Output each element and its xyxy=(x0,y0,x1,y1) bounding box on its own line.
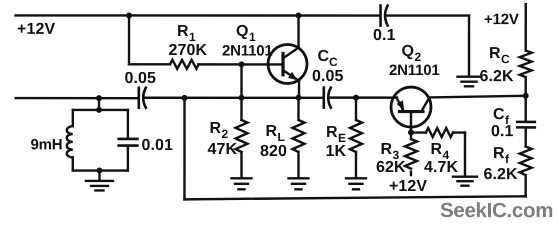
svg-text:+12V: +12V xyxy=(17,21,55,38)
svg-text:47K: 47K xyxy=(207,141,237,158)
svg-text:+12V: +12V xyxy=(389,178,427,195)
svg-text:2N1101: 2N1101 xyxy=(389,62,440,79)
svg-text:+12V: +12V xyxy=(484,11,519,28)
svg-text:62K: 62K xyxy=(376,159,406,176)
svg-text:R: R xyxy=(430,141,442,158)
svg-text:0.1: 0.1 xyxy=(373,27,396,44)
svg-text:Q: Q xyxy=(236,23,249,40)
svg-text:2N1101: 2N1101 xyxy=(222,42,273,59)
svg-text:SeekIC.com: SeekIC.com xyxy=(440,199,553,222)
svg-text:4.7K: 4.7K xyxy=(424,159,459,176)
svg-text:9mH: 9mH xyxy=(30,136,62,153)
svg-text:0.1: 0.1 xyxy=(491,123,514,140)
svg-text:R: R xyxy=(177,23,189,40)
svg-text:0.01: 0.01 xyxy=(141,137,173,154)
svg-text:C: C xyxy=(501,52,510,66)
svg-text:R: R xyxy=(489,45,501,62)
svg-text:1K: 1K xyxy=(325,143,346,160)
svg-text:C: C xyxy=(493,106,505,123)
svg-text:R: R xyxy=(326,124,338,141)
svg-text:R: R xyxy=(209,120,221,137)
svg-text:2: 2 xyxy=(221,127,228,141)
svg-text:R: R xyxy=(265,123,277,140)
svg-text:820: 820 xyxy=(260,143,287,160)
svg-text:L: L xyxy=(277,130,284,144)
svg-text:6.2K: 6.2K xyxy=(483,166,518,183)
svg-text:6.2K: 6.2K xyxy=(480,68,515,85)
svg-text:C: C xyxy=(318,48,330,65)
svg-text:C: C xyxy=(329,55,338,69)
svg-text:0.05: 0.05 xyxy=(312,68,344,85)
svg-text:0.05: 0.05 xyxy=(125,70,157,87)
svg-text:f: f xyxy=(505,152,510,166)
svg-text:R: R xyxy=(380,141,392,158)
svg-text:R: R xyxy=(493,145,505,162)
svg-text:270K: 270K xyxy=(169,42,208,59)
svg-text:Q: Q xyxy=(402,43,415,60)
